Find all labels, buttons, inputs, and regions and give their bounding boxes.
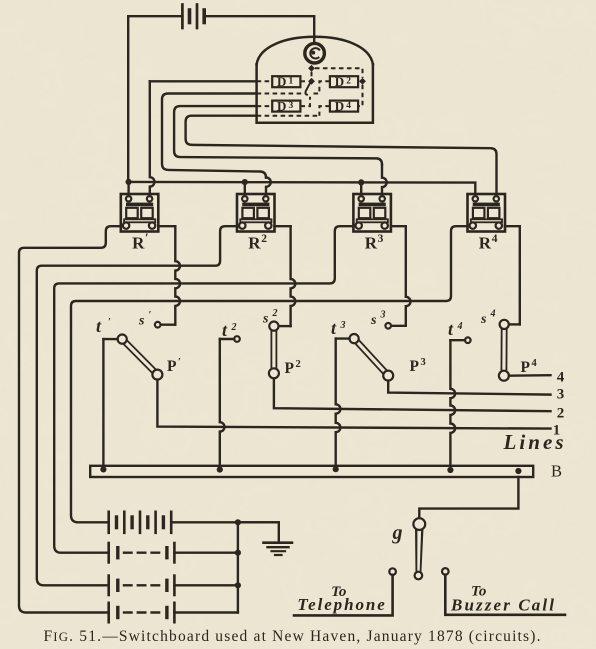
svg-text:2: 2 bbox=[557, 406, 565, 422]
node (row3 bus) bbox=[235, 582, 241, 588]
wire (relay R4 armature to jack s4) bbox=[505, 226, 520, 324]
svg-text:R: R bbox=[132, 234, 145, 253]
label 1 bbox=[553, 423, 561, 439]
battery LB2 (row 2, dashed) bbox=[109, 543, 238, 562]
svg-text:Lines: Lines bbox=[503, 430, 564, 454]
label R3 bbox=[365, 233, 384, 253]
svg-text:1: 1 bbox=[289, 76, 294, 86]
svg-text:3: 3 bbox=[378, 233, 384, 245]
wire (relay R2 coil return to battery row 3) bbox=[37, 226, 237, 585]
node (t1 on B) bbox=[100, 466, 106, 472]
jack t4 (open) bbox=[465, 337, 471, 343]
svg-text:D: D bbox=[277, 74, 286, 89]
label R2 bbox=[248, 233, 267, 253]
svg-text:R: R bbox=[248, 234, 261, 253]
wire (annunciator lead 4 to relay R4) bbox=[186, 116, 497, 196]
plug P2 lever bbox=[270, 326, 277, 373]
wire (telephone terminal lead) bbox=[294, 575, 393, 616]
label P4 bbox=[521, 358, 538, 376]
plug tip P1 bbox=[152, 370, 162, 380]
svg-text:s: s bbox=[138, 314, 145, 329]
svg-text:3: 3 bbox=[340, 320, 346, 331]
node (t2 on B) bbox=[217, 467, 223, 473]
label P1 bbox=[167, 357, 181, 375]
wire (dashed, D4 jog to lead 4) bbox=[319, 106, 330, 116]
wire (t3 to bar B) bbox=[336, 339, 350, 466]
svg-text:2: 2 bbox=[296, 359, 301, 370]
bus (relay common bus) bbox=[128, 182, 475, 196]
svg-text:2: 2 bbox=[346, 76, 351, 86]
jack t1 (plugged) bbox=[118, 335, 127, 344]
svg-text:R: R bbox=[479, 234, 492, 253]
label s2 bbox=[262, 308, 278, 327]
svg-text:FIG. 51.—Switchboard used at N: FIG. 51.—Switchboard used at New Haven, … bbox=[44, 628, 541, 645]
svg-text:3: 3 bbox=[380, 310, 386, 321]
annunciator box (drop annunciator with dome) bbox=[257, 37, 373, 123]
plug tip P3 bbox=[383, 371, 393, 381]
svg-text:′: ′ bbox=[145, 230, 149, 245]
wire (t4 to bar B) bbox=[450, 340, 465, 466]
jack t2 (open) bbox=[234, 336, 240, 342]
svg-text:s: s bbox=[480, 312, 487, 327]
node (bus junction at R3) bbox=[358, 179, 364, 185]
svg-text:4: 4 bbox=[346, 101, 351, 111]
line 2 wire bbox=[274, 378, 551, 411]
plug g lever bbox=[415, 526, 424, 575]
svg-text:3: 3 bbox=[289, 101, 294, 111]
plug g top bbox=[413, 518, 425, 530]
label 2 bbox=[557, 406, 565, 422]
node (row1-row2 bus) bbox=[235, 519, 241, 525]
drop D1 bbox=[272, 74, 300, 89]
label To Telephone bbox=[297, 584, 385, 614]
wire (bus tap to R2 coil) bbox=[244, 182, 246, 195]
svg-text:Telephone: Telephone bbox=[297, 595, 385, 614]
ground bbox=[264, 543, 293, 555]
node (junction diamond center) bbox=[308, 78, 315, 85]
wire (relay R4 coil return to battery row 1) bbox=[71, 226, 468, 522]
terminal (to buzzer call) bbox=[442, 568, 449, 575]
label 4 bbox=[557, 370, 565, 386]
plug tip P4 bbox=[499, 371, 509, 381]
svg-text:3: 3 bbox=[421, 357, 426, 368]
wire (dashed, D2 to right junction) bbox=[358, 80, 359, 82]
svg-text:2: 2 bbox=[261, 233, 267, 245]
jack s1 (open) bbox=[155, 322, 161, 328]
svg-text:P: P bbox=[167, 358, 177, 375]
wire (dashed, D1 to center junction) bbox=[300, 80, 308, 82]
wire (bus tap to R1 coil) bbox=[127, 182, 129, 196]
svg-text:D: D bbox=[277, 98, 286, 113]
node (bus junction at R1) bbox=[126, 179, 132, 185]
caption bbox=[44, 628, 541, 645]
wire (relay R3 coil return to battery row 2) bbox=[54, 226, 353, 553]
plug tip P2 bbox=[269, 368, 279, 378]
wire (dashed, box edge lead 2) bbox=[257, 93, 307, 95]
plug P4 lever bbox=[500, 324, 507, 375]
bar B (common strip) bbox=[90, 466, 533, 477]
battery (main battery, top) bbox=[128, 5, 314, 29]
svg-text:s: s bbox=[370, 313, 377, 328]
label s3 bbox=[370, 310, 386, 329]
wire (bus tap to R3 coil) bbox=[360, 182, 362, 195]
plug P3 lever bbox=[354, 339, 388, 376]
svg-text:3: 3 bbox=[557, 387, 565, 403]
svg-text:B: B bbox=[551, 462, 562, 481]
plug g tip bbox=[415, 572, 423, 580]
svg-text:2: 2 bbox=[272, 308, 278, 319]
node (g tap on B) bbox=[515, 468, 521, 474]
label s1 bbox=[138, 310, 152, 329]
svg-text:′: ′ bbox=[108, 317, 111, 328]
label R1 bbox=[132, 230, 149, 253]
label t2 bbox=[222, 320, 237, 340]
wire (battery positive to annunciator bell) bbox=[313, 16, 315, 43]
label P2 bbox=[285, 359, 301, 377]
relay R1 bbox=[121, 194, 159, 232]
svg-text:4: 4 bbox=[532, 358, 538, 369]
wire (annunciator lead 1 to relay R1) bbox=[150, 81, 257, 195]
wire (dashed, right junction down to D4) bbox=[358, 85, 362, 106]
wire (dashed, top loop to right junction) bbox=[315, 68, 363, 78]
svg-text:P: P bbox=[285, 360, 295, 377]
line 1 wire bbox=[157, 380, 550, 429]
drop D2 bbox=[330, 74, 358, 89]
battery LB1 (local battery row 1) bbox=[109, 512, 279, 533]
wire (t1 to bar B) bbox=[103, 339, 117, 466]
svg-text:s: s bbox=[262, 312, 269, 327]
wire (annunciator lead 3 to relay R3) bbox=[174, 106, 387, 195]
svg-text:R: R bbox=[365, 234, 378, 253]
drop D4 bbox=[330, 98, 358, 113]
relay R2 bbox=[237, 194, 275, 232]
battery LB4 (row 4, dashed) bbox=[109, 603, 238, 622]
wire (dashed, box edge lead 4) bbox=[257, 115, 320, 117]
wire (dashed, box edge to D1) bbox=[257, 80, 273, 82]
battery LB3 (row 3, dashed) bbox=[109, 576, 238, 595]
jack s2 (plugged) bbox=[269, 322, 278, 331]
bell gong bbox=[305, 43, 325, 63]
svg-text:4: 4 bbox=[557, 370, 565, 386]
label P3 bbox=[410, 357, 426, 375]
wire (bar B to plug g) bbox=[419, 477, 518, 518]
node (t4 on B) bbox=[447, 467, 453, 473]
label g bbox=[392, 522, 403, 544]
relay R3 bbox=[353, 194, 391, 232]
svg-text:4: 4 bbox=[492, 233, 498, 245]
label t3 bbox=[331, 318, 346, 338]
wire (battery negative to relay bus) bbox=[127, 16, 129, 181]
wire (annunciator lead 2 to relay R2) bbox=[162, 94, 271, 196]
svg-text:D: D bbox=[335, 98, 344, 113]
line 4 wire bbox=[509, 374, 551, 377]
wire (dashed, bell junction to center junction) bbox=[311, 72, 313, 78]
label B bbox=[551, 462, 562, 481]
wire (relay R1 coil return to battery row 4) bbox=[19, 226, 121, 612]
svg-text:g: g bbox=[392, 522, 403, 544]
node (junction diamond right) bbox=[359, 78, 366, 85]
jack s4 (plugged) bbox=[500, 320, 509, 329]
svg-text:′: ′ bbox=[149, 310, 152, 321]
svg-text:′: ′ bbox=[178, 357, 181, 368]
svg-text:P: P bbox=[521, 359, 531, 376]
wire (battery to ground) bbox=[238, 522, 279, 541]
label t1 bbox=[96, 316, 111, 336]
wire (buzzer terminal lead) bbox=[445, 575, 565, 615]
svg-text:P: P bbox=[410, 358, 420, 375]
jack s3 (open) bbox=[385, 323, 391, 329]
node (t3 on B) bbox=[333, 466, 339, 472]
node (bus junction at R2) bbox=[242, 179, 248, 185]
svg-text:2: 2 bbox=[231, 322, 237, 333]
svg-text:4: 4 bbox=[490, 309, 496, 320]
label t4 bbox=[448, 319, 463, 339]
wire (dashed, D3 stub up to contact) bbox=[300, 97, 310, 106]
armature contact lever bbox=[305, 80, 311, 95]
wire (dashed, D2 jog to contact) bbox=[311, 81, 330, 93]
drop D3 bbox=[272, 98, 300, 113]
svg-text:D: D bbox=[335, 74, 344, 89]
svg-text:4: 4 bbox=[457, 321, 463, 332]
plug P1 lever bbox=[122, 339, 157, 375]
wire (relay R1 armature to jack s1) bbox=[158, 226, 180, 325]
wire (t2 to bar B) bbox=[220, 339, 234, 466]
label s4 bbox=[480, 309, 496, 328]
label R4 bbox=[479, 233, 498, 253]
wire (relay R2 armature to jack s2) bbox=[275, 226, 296, 326]
node (row2 bus) bbox=[235, 550, 241, 556]
line 3 wire bbox=[388, 381, 550, 395]
label To Buzzer Call bbox=[450, 584, 554, 615]
wire (battery rows common bus) bbox=[237, 522, 239, 612]
relay R4 bbox=[468, 194, 506, 232]
node (junction diamond under bell) bbox=[308, 65, 315, 72]
jack t3 (plugged) bbox=[350, 334, 359, 343]
terminal (to telephone) bbox=[389, 568, 396, 575]
wire (dashed, box edge to D3) bbox=[257, 105, 273, 107]
label Lines bbox=[503, 430, 564, 454]
label 3 bbox=[557, 387, 565, 403]
wire (relay R3 armature to jack s3) bbox=[391, 226, 411, 326]
